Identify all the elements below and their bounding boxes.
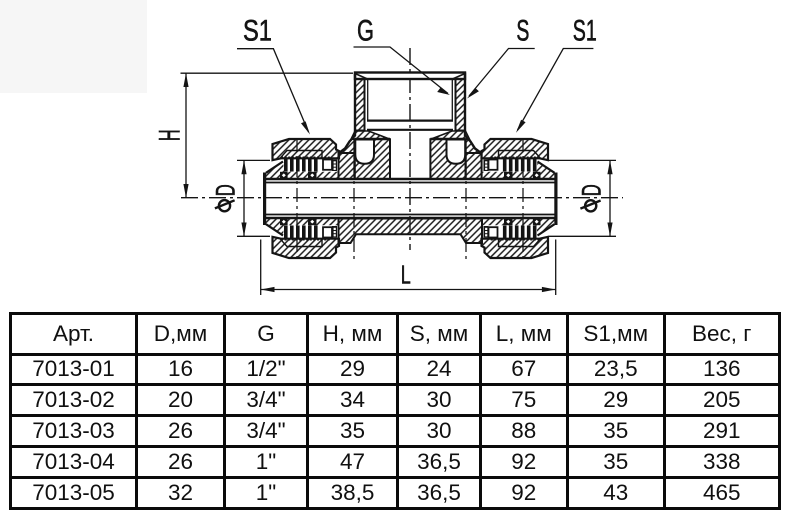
- flange underside line left: [355, 138, 390, 140]
- tailpiece band right top hatched: [482, 162, 555, 180]
- leader line G: [354, 47, 449, 94]
- port wall right hatched: [456, 79, 466, 131]
- flange chamfer right top: [538, 162, 555, 173]
- centerline left nut axis: [296, 138, 298, 262]
- dimension L extension right: [555, 240, 557, 296]
- dimensions table: [9, 312, 781, 510]
- nut left top hatched: [273, 139, 340, 160]
- ring stack right bottom: [484, 226, 489, 238]
- pipe bore top line: [264, 182, 556, 184]
- hub left hatched: [355, 139, 390, 179]
- o-ring right bottom at 308: [504, 218, 513, 225]
- dimension L arrow left: [261, 287, 275, 292]
- port thread minor line left: [367, 80, 369, 121]
- port cavity floor line: [367, 119, 453, 121]
- port outer wall right with flare: [465, 73, 481, 154]
- o-ring right top at 280: [533, 172, 541, 179]
- flange chamfer left bottom: [266, 224, 283, 235]
- port under-floor right cone hatched: [431, 131, 470, 139]
- ferrule right bottom serration: [491, 239, 540, 241]
- dimension phiD-left extension bottom: [237, 235, 270, 237]
- centerline right collar axis: [465, 138, 467, 262]
- thread teeth right top: [503, 159, 537, 172]
- dimension H extension line: [181, 72, 354, 74]
- dimension L arrow right: [542, 287, 556, 292]
- collar right hatched: [466, 153, 482, 179]
- dimension H label: [154, 129, 187, 141]
- port rim chamfer right: [453, 74, 466, 80]
- port rim chamfer left: [355, 74, 368, 80]
- o-ring left top at 308: [308, 172, 317, 179]
- port cavity floor bottom line: [367, 129, 453, 131]
- dimension L line: [261, 289, 556, 291]
- svg-text:L: L: [401, 260, 411, 290]
- dimension L extension left: [260, 240, 262, 296]
- svg-text:S1: S1: [243, 15, 272, 48]
- leader line S1 left: [237, 49, 309, 132]
- leader line S1 right: [518, 49, 594, 131]
- svg-text:H: H: [154, 129, 187, 141]
- dimension H arrow bottom: [183, 184, 188, 198]
- dimension phiD-right label: [577, 184, 607, 211]
- collar left hatched: [339, 153, 355, 179]
- svg-text:G: G: [357, 15, 374, 48]
- flange underside line right: [430, 138, 465, 140]
- ferrule left bottom serration: [281, 239, 330, 241]
- svg-text:D: D: [577, 184, 607, 196]
- o-ring left top at 280: [280, 172, 288, 179]
- o-ring left bottom at 308: [308, 218, 317, 225]
- port wall left hatched: [355, 79, 365, 131]
- port thread minor line right: [451, 80, 453, 121]
- tailpiece band left bottom hatched: [266, 218, 339, 236]
- thread teeth left top: [284, 159, 318, 172]
- svg-text:S: S: [516, 15, 529, 48]
- left end flange face: [263, 173, 266, 226]
- leader arrow G: [437, 88, 450, 95]
- port flare wedge right hatched: [465, 136, 481, 153]
- ring stack left top: [332, 160, 337, 172]
- dimension phiD-right extension bottom: [549, 235, 616, 237]
- ferrule right bottom outline: [499, 239, 541, 247]
- spacer ring left bottom: [323, 227, 332, 237]
- nut right top hatched: [482, 139, 549, 160]
- dimension phiD-right extension top: [549, 159, 616, 161]
- dimension phiD-left arrow bottom: [241, 223, 246, 237]
- o-ring right bottom at 280: [533, 218, 541, 225]
- nut right bottom hatched: [482, 237, 549, 258]
- ferrule right top outline: [499, 151, 541, 159]
- pipe outer top line: [263, 178, 557, 181]
- svg-text:S1: S1: [573, 15, 597, 48]
- pipe outer bottom line: [263, 217, 557, 220]
- tailpiece band right bottom hatched: [482, 218, 555, 236]
- leader arrow S1 left: [301, 121, 310, 134]
- ring stack left bottom: [332, 226, 337, 238]
- relief pocket right: [447, 140, 466, 164]
- nut left bottom hatched: [273, 237, 340, 258]
- faint background smudge top-left: [0, 0, 147, 93]
- ferrule left top serration: [281, 156, 330, 158]
- o-ring right top at 308: [504, 172, 513, 179]
- dimension phiD-right arrow top: [607, 160, 612, 174]
- thread teeth right bottom: [503, 226, 537, 239]
- dimension phiD-right arrow bottom: [607, 223, 612, 237]
- ring stack right top: [484, 160, 489, 172]
- dimension phiD-left label: [211, 184, 241, 211]
- centerline port axis vertical: [409, 48, 411, 250]
- centerline right nut axis: [522, 138, 524, 262]
- right end flange face: [554, 173, 557, 226]
- ferrule left top outline: [280, 151, 322, 159]
- dimension H arrow top: [183, 73, 188, 87]
- centerline pipe axis horizontal: [181, 197, 623, 199]
- dimension H line: [185, 73, 187, 198]
- dimension phiD-right line: [609, 160, 611, 236]
- dimension phiD-left line: [243, 160, 245, 236]
- spacer ring left top: [323, 160, 332, 170]
- leader line S: [469, 49, 535, 97]
- ferrule right top serration: [491, 156, 540, 158]
- pipe bore bottom line: [264, 214, 556, 216]
- leader arrow S: [467, 88, 479, 99]
- flange chamfer right bottom: [538, 224, 555, 235]
- relief pocket left: [355, 140, 374, 164]
- dimension phiD-left extension top: [237, 159, 270, 161]
- spacer ring right bottom: [489, 227, 498, 237]
- port rim end face: [355, 73, 465, 80]
- o-ring left bottom at 280: [280, 218, 288, 225]
- hub right hatched: [430, 139, 465, 179]
- port flare wedge left hatched: [339, 136, 355, 153]
- svg-text:D: D: [211, 184, 241, 196]
- port under-floor left cone hatched: [351, 131, 390, 139]
- spacer ring right top: [489, 160, 498, 170]
- flange chamfer left top: [266, 162, 283, 173]
- ferrule left bottom outline: [280, 239, 322, 247]
- tailpiece band left top hatched: [266, 162, 339, 180]
- thread teeth left bottom: [284, 226, 318, 239]
- port outer wall left with flare: [339, 73, 355, 154]
- centerline left collar axis: [353, 138, 355, 262]
- dimension phiD-left arrow top: [241, 160, 246, 174]
- body bottom boss hatched: [339, 219, 483, 244]
- leader arrow S1 right: [516, 120, 526, 133]
